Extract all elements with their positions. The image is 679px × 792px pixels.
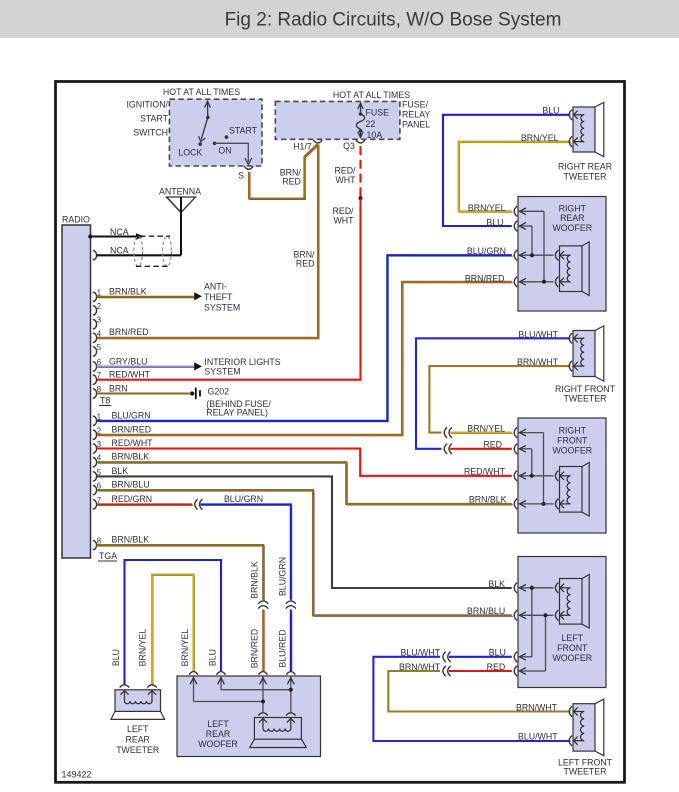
svg-text:BLU: BLU: [208, 649, 218, 666]
svg-text:BRN/WHT: BRN/WHT: [516, 703, 558, 713]
svg-text:BLU: BLU: [111, 649, 121, 666]
svg-text:FUSE/: FUSE/: [402, 99, 428, 109]
svg-text:IGNITION/: IGNITION/: [126, 100, 168, 110]
svg-text:10A: 10A: [367, 130, 383, 140]
svg-text:BLU: BLU: [542, 106, 559, 116]
svg-text:WOOFER: WOOFER: [198, 739, 238, 749]
svg-text:GRY/BLU: GRY/BLU: [109, 356, 147, 366]
svg-text:RELAY PANEL): RELAY PANEL): [206, 408, 268, 418]
svg-text:BLU/WHT: BLU/WHT: [518, 329, 558, 339]
svg-text:RED/WHT: RED/WHT: [112, 438, 154, 448]
svg-text:RED/: RED/: [332, 206, 354, 216]
svg-text:TWEETER: TWEETER: [563, 394, 606, 404]
svg-text:BRN/YEL: BRN/YEL: [467, 424, 505, 434]
svg-text:BRN/BLK: BRN/BLK: [109, 287, 147, 297]
svg-text:TGA: TGA: [99, 551, 117, 561]
svg-text:RED: RED: [483, 440, 502, 450]
svg-text:INTERIOR LIGHTS: INTERIOR LIGHTS: [204, 357, 280, 367]
svg-text:BRN/BLU: BRN/BLU: [112, 480, 150, 490]
svg-text:RIGHT REAR: RIGHT REAR: [558, 162, 612, 172]
svg-text:BRN/YEL: BRN/YEL: [138, 629, 148, 667]
svg-text:NCA: NCA: [110, 227, 129, 237]
svg-text:5: 5: [97, 343, 102, 352]
svg-text:BRN/YEL: BRN/YEL: [521, 133, 559, 143]
svg-text:G202: G202: [208, 387, 230, 397]
svg-text:THEFT: THEFT: [204, 292, 233, 302]
svg-text:ON: ON: [218, 146, 231, 156]
svg-text:BRN/RED: BRN/RED: [112, 424, 152, 434]
svg-text:BLU/GRN: BLU/GRN: [224, 494, 263, 504]
svg-text:TWEETER: TWEETER: [563, 171, 606, 181]
svg-text:TWEETER: TWEETER: [116, 745, 159, 755]
svg-text:LEFT: LEFT: [127, 724, 149, 734]
svg-text:FRONT: FRONT: [557, 435, 588, 445]
svg-text:BLU/GRN: BLU/GRN: [278, 557, 288, 596]
svg-text:RELAY: RELAY: [402, 110, 430, 120]
svg-text:START: START: [140, 114, 169, 124]
svg-text:RED: RED: [296, 259, 315, 269]
svg-text:LEFT: LEFT: [562, 633, 584, 643]
svg-text:RED: RED: [282, 177, 301, 187]
svg-text:BLU: BLU: [489, 648, 506, 658]
svg-text:Fig 2: Radio Circuits, W/O Bos: Fig 2: Radio Circuits, W/O Bose System: [225, 10, 562, 31]
svg-text:NCA: NCA: [110, 246, 129, 256]
svg-text:BRN/BLU: BRN/BLU: [467, 606, 505, 616]
svg-text:REAR: REAR: [125, 735, 149, 745]
svg-text:3: 3: [97, 316, 101, 325]
svg-text:START: START: [229, 126, 258, 136]
svg-text:REAR: REAR: [206, 729, 230, 739]
svg-text:BRN/RED: BRN/RED: [250, 629, 260, 669]
svg-text:BLU/GRN: BLU/GRN: [467, 246, 506, 256]
svg-text:RIGHT FRONT: RIGHT FRONT: [555, 384, 616, 394]
svg-text:RIGHT: RIGHT: [559, 204, 587, 214]
svg-text:2: 2: [97, 302, 101, 311]
svg-text:SWITCH: SWITCH: [133, 128, 168, 138]
svg-text:BLU: BLU: [486, 218, 503, 228]
svg-text:BRN/WHT: BRN/WHT: [399, 662, 441, 672]
svg-text:BLK: BLK: [488, 579, 505, 589]
svg-text:WOOFER: WOOFER: [553, 445, 593, 455]
svg-text:RADIO: RADIO: [62, 215, 90, 225]
svg-text:WOOFER: WOOFER: [553, 653, 593, 663]
svg-text:RED: RED: [487, 662, 506, 672]
svg-text:SYSTEM: SYSTEM: [204, 302, 240, 312]
svg-text:BRN/RED: BRN/RED: [109, 327, 149, 337]
svg-text:HOT AT ALL TIMES: HOT AT ALL TIMES: [333, 90, 410, 100]
svg-text:BRN/BLK: BRN/BLK: [112, 535, 150, 545]
svg-text:REAR: REAR: [560, 213, 584, 223]
svg-text:ANTENNA: ANTENNA: [159, 187, 201, 197]
svg-text:BRN/YEL: BRN/YEL: [468, 203, 506, 213]
svg-text:BLU/WHT: BLU/WHT: [518, 732, 558, 742]
svg-text:LOCK: LOCK: [178, 148, 202, 158]
svg-text:TWEETER: TWEETER: [563, 767, 606, 777]
svg-text:SYSTEM: SYSTEM: [204, 367, 240, 377]
svg-text:BRN/BLK: BRN/BLK: [469, 495, 507, 505]
svg-text:LEFT: LEFT: [207, 719, 229, 729]
svg-text:RED/WHT: RED/WHT: [464, 467, 506, 477]
svg-text:7: 7: [97, 371, 101, 380]
svg-text:WHT: WHT: [335, 175, 356, 185]
svg-text:BRN/WHT: BRN/WHT: [517, 357, 559, 367]
svg-text:RED/GRN: RED/GRN: [112, 494, 153, 504]
svg-text:BRN: BRN: [109, 383, 128, 393]
svg-text:RED/WHT: RED/WHT: [109, 369, 151, 379]
svg-text:H1/7: H1/7: [293, 142, 312, 152]
svg-text:22: 22: [366, 119, 376, 129]
svg-text:Q3: Q3: [343, 141, 355, 151]
svg-text:RIGHT: RIGHT: [559, 426, 587, 436]
svg-text:FRONT: FRONT: [557, 643, 588, 653]
svg-text:BRN/BLK: BRN/BLK: [112, 452, 150, 462]
svg-text:BLU/WHT: BLU/WHT: [401, 648, 441, 658]
svg-text:BRN/RED: BRN/RED: [465, 273, 505, 283]
svg-text:BRN/BLK: BRN/BLK: [250, 561, 260, 599]
svg-text:BRN/YEL: BRN/YEL: [180, 629, 190, 667]
svg-text:T8: T8: [100, 396, 110, 406]
svg-text:ANTI-: ANTI-: [204, 282, 227, 292]
svg-text:WOOFER: WOOFER: [553, 223, 593, 233]
svg-text:RED/: RED/: [334, 166, 356, 176]
svg-text:PANEL: PANEL: [402, 120, 430, 130]
svg-text:BLK: BLK: [112, 466, 129, 476]
svg-text:149422: 149422: [62, 770, 92, 780]
svg-text:4: 4: [97, 329, 102, 338]
svg-text:BLU/GRN: BLU/GRN: [112, 410, 151, 420]
svg-text:BLU/RED: BLU/RED: [278, 629, 288, 667]
svg-text:WHT: WHT: [333, 215, 354, 225]
svg-text:HOT AT ALL TIMES: HOT AT ALL TIMES: [163, 87, 240, 97]
svg-text:FUSE: FUSE: [366, 108, 390, 118]
svg-text:S: S: [238, 171, 244, 181]
